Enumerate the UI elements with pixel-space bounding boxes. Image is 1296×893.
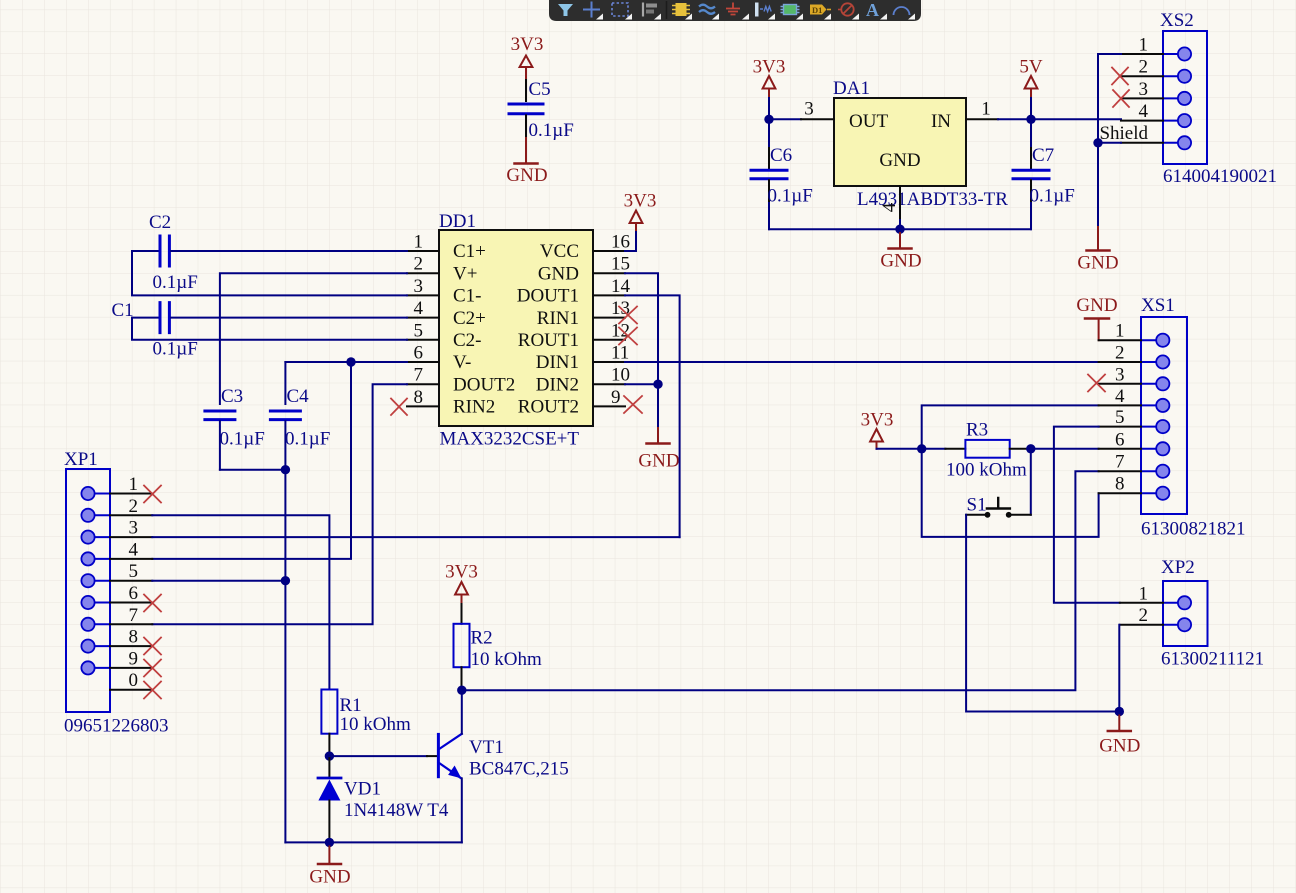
svg-text:XS1: XS1 (1141, 295, 1175, 316)
svg-text:C7: C7 (1032, 145, 1054, 166)
svg-text:1: 1 (1139, 35, 1149, 56)
svg-text:V-: V- (453, 352, 471, 373)
wire R3 node to XS1 pin6 (1031, 448, 1099, 450)
svg-text:S1: S1 (967, 495, 987, 516)
svg-text:3: 3 (1139, 79, 1149, 100)
resistor R2 (454, 604, 542, 690)
probe icon (755, 3, 759, 17)
svg-text:0.1µF: 0.1µF (768, 186, 813, 207)
D1 tag icon (810, 5, 827, 15)
svg-text:3: 3 (804, 99, 814, 120)
pin 4 (DD1) (407, 298, 439, 319)
pin 9 (XP1) (110, 648, 152, 669)
pin 3 (XP1) (110, 518, 152, 539)
resistor R1 (321, 690, 411, 757)
pin 4 (XP1) (110, 539, 152, 560)
svg-text:C3: C3 (221, 386, 243, 407)
wire DD1 pin16 to 3V3 (625, 232, 636, 251)
capacitor C6 (751, 119, 813, 229)
wire 3V3 to C6/DA1 (769, 98, 801, 119)
svg-text:3: 3 (414, 276, 424, 297)
svg-text:1: 1 (1115, 321, 1125, 342)
wire XS1 pin5 to XP2 pin1 (1054, 427, 1120, 603)
connector XS1 (1141, 295, 1246, 540)
connector XS2 (1160, 10, 1277, 187)
svg-text:4: 4 (879, 202, 900, 212)
svg-text:100 kOhm: 100 kOhm (946, 460, 1027, 481)
transistor VT1 (438, 734, 568, 780)
pin 6 (XP1) (110, 583, 152, 604)
svg-text:3: 3 (129, 518, 139, 539)
junction R2/collector (457, 686, 466, 695)
capacitor C7 (1013, 119, 1075, 229)
wire 5V rail (998, 98, 1121, 119)
svg-text:RIN2: RIN2 (453, 397, 495, 418)
dropdown marks (596, 14, 915, 20)
svg-text:4: 4 (129, 539, 139, 560)
svg-text:XP2: XP2 (1161, 557, 1195, 578)
no-ERC marker XP1 pin 10 (144, 682, 161, 699)
ground GND (XP2) (1099, 716, 1140, 757)
junction R3 left node (917, 444, 926, 453)
pin 10 (DD1) (593, 365, 630, 386)
TOOLBAR (549, 0, 921, 21)
junction DIN2/GND (653, 380, 662, 389)
svg-text:6: 6 (129, 583, 139, 604)
voltage regulator DA1 (833, 78, 1008, 210)
pin 3 (DA1 OUT) (801, 99, 834, 120)
pin 7 (XP1) (110, 605, 152, 626)
power port 3V3 (DD1 VCC) (624, 191, 657, 233)
wire DD1 pin14 DOUT1 down (625, 295, 680, 537)
pin 5 (XS1) (1099, 407, 1141, 428)
ground GND (XS2) (1077, 227, 1118, 274)
svg-text:Shield: Shield (1099, 123, 1148, 144)
junction C3/C4 (281, 465, 290, 474)
wire XS2 pin1 to shield (1098, 54, 1121, 227)
svg-text:0.1µF: 0.1µF (153, 272, 198, 293)
pin 8 (DD1) (407, 387, 439, 408)
junction XP1 pin5 (281, 576, 290, 585)
pin 2 (XS1) (1099, 343, 1141, 364)
svg-text:GND: GND (1076, 295, 1117, 316)
svg-text:DD1: DD1 (439, 211, 476, 232)
svg-text:C4: C4 (287, 386, 310, 407)
svg-text:1N4148W T4: 1N4148W T4 (344, 800, 449, 821)
svg-text:3V3: 3V3 (511, 34, 544, 55)
svg-text:2: 2 (129, 496, 139, 517)
svg-text:61300211121: 61300211121 (1161, 649, 1264, 670)
svg-text:3: 3 (1115, 364, 1125, 385)
svg-text:GND: GND (309, 867, 350, 888)
svg-text:2: 2 (414, 254, 424, 275)
pin 12 (DD1) (593, 320, 630, 341)
wire S1 left down to XP2 pin2 net (966, 515, 1119, 712)
switch S1 (966, 495, 1031, 518)
capacitor C5 (509, 79, 574, 141)
svg-text:9: 9 (611, 387, 621, 408)
pin 13 (DD1) (593, 298, 630, 319)
pin 2 (XP2) (1120, 605, 1163, 626)
wire R3 node down to XS1 pin8 (922, 449, 1099, 537)
ground GND (XS1 pin1) (1076, 295, 1117, 340)
junction XP2 gnd node (1115, 707, 1124, 716)
svg-text:R1: R1 (340, 695, 362, 716)
svg-text:4: 4 (1139, 101, 1149, 122)
svg-text:VD1: VD1 (344, 779, 381, 800)
junction V- node (346, 357, 355, 366)
svg-text:D1: D1 (812, 5, 822, 15)
svg-text:OUT: OUT (849, 111, 888, 132)
wire XP1 pin3 to DOUT1 (152, 536, 679, 538)
no-ERC marker XP1 pin 1 (144, 486, 161, 503)
svg-text:1: 1 (981, 99, 991, 120)
wire VT1 collector up (461, 690, 463, 734)
pin 3 (XS2) (1121, 79, 1163, 100)
svg-text:5: 5 (129, 561, 139, 582)
pin 4 (XS1) (1099, 386, 1141, 407)
no-ERC marker DD1 pin 12 (619, 328, 637, 345)
wire VT1 emitter down (461, 778, 463, 842)
wire collector node to XS1 pin7 (462, 471, 1099, 690)
pin 14 (DD1) (593, 276, 631, 297)
svg-text:R2: R2 (471, 628, 493, 649)
svg-text:DIN1: DIN1 (536, 352, 579, 373)
wire bottom gnd rail (285, 841, 461, 843)
svg-text:C6: C6 (770, 145, 792, 166)
svg-text:12: 12 (611, 320, 630, 341)
svg-text:C2-: C2- (453, 330, 482, 351)
pin 6 (XS1) (1099, 429, 1141, 450)
svg-text:GND: GND (506, 165, 547, 186)
pin 11 (DD1) (593, 343, 629, 364)
pin 10 (XP1) (110, 670, 152, 691)
svg-text:DA1: DA1 (833, 78, 870, 99)
svg-text:C1-: C1- (453, 286, 482, 307)
svg-text:15: 15 (611, 254, 630, 275)
wire R3 right node down to S1 (1030, 449, 1032, 515)
svg-text:VT1: VT1 (469, 737, 504, 758)
svg-text:5: 5 (414, 320, 424, 341)
svg-text:DIN2: DIN2 (536, 374, 579, 395)
wire 3V3 to R3 node (877, 448, 922, 450)
power port 3V3 (DA1/C6) (753, 57, 786, 99)
ground GND (C5) (506, 138, 547, 186)
pin 9 (DD1) (593, 387, 625, 408)
svg-text:MAX3232CSE+T: MAX3232CSE+T (440, 429, 580, 450)
wire DD1 pin2 to C3 (220, 273, 407, 404)
pin 2 (XS2) (1121, 57, 1163, 78)
connector XP2 (1161, 557, 1264, 670)
pin 5 (DD1) (407, 320, 439, 341)
svg-text:R3: R3 (966, 420, 988, 441)
wire R3 node up to XS1 pin4 (922, 405, 1099, 448)
ground GND (DD1) (638, 428, 679, 472)
wire DD1 pin7 down to XP1 pin7 (152, 384, 407, 624)
svg-text:5: 5 (1115, 407, 1125, 428)
wires icon (699, 5, 715, 14)
arc icon (894, 7, 910, 15)
ground GND (DA1) (880, 233, 921, 272)
wire XP1 pin2 to R1 (152, 515, 329, 689)
pin 7 (DD1) (407, 365, 439, 386)
svg-text:1: 1 (129, 474, 139, 495)
wire C2 loop to pin3 (132, 251, 407, 295)
wire base R1 to VT1 (329, 755, 437, 757)
wire DA1 pin4 to gnd rail (899, 220, 901, 229)
svg-text:GND: GND (879, 150, 920, 171)
svg-text:09651226803: 09651226803 (64, 716, 169, 737)
pin 1 (DA1 IN) (966, 99, 998, 120)
no-ERC marker XP1 pin 9 (144, 660, 161, 677)
junction C6/3V3 (764, 115, 773, 124)
svg-text:A: A (866, 0, 879, 20)
svg-text:RIN1: RIN1 (537, 308, 579, 329)
wire C3 bottom to C4 bottom (220, 469, 286, 471)
wire node to R3 (922, 448, 946, 450)
wire DD1 pin15 GND net (625, 273, 658, 428)
pin 1 (XS2) (1121, 35, 1163, 56)
svg-text:C2+: C2+ (453, 308, 486, 329)
svg-text:0.1µF: 0.1µF (153, 339, 198, 360)
pin 8 (XP1) (110, 627, 152, 648)
pin 1 (XP1) (110, 474, 152, 495)
capacitor C1 (112, 300, 408, 360)
pin 4 (XS2) (1121, 101, 1163, 122)
svg-text:3V3: 3V3 (624, 191, 657, 212)
pin 3 (DD1) (407, 276, 439, 297)
svg-text:2: 2 (1139, 57, 1149, 78)
svg-text:GND: GND (638, 451, 679, 472)
svg-text:8: 8 (1115, 474, 1125, 495)
svg-text:614004190021: 614004190021 (1163, 166, 1277, 187)
IC DD1 MAX3232CSE+T (439, 211, 593, 450)
pin Shield (XS2) (1099, 123, 1163, 144)
svg-text:BC847C,215: BC847C,215 (469, 759, 569, 780)
IC icon yellow (676, 3, 687, 16)
wire XP2 pin2 down (1118, 625, 1120, 712)
svg-text:7: 7 (1115, 452, 1125, 473)
svg-text:C2: C2 (149, 212, 171, 233)
svg-text:10: 10 (611, 365, 630, 386)
pin 4 (DA1 GND) (879, 186, 900, 220)
no-ERC marker XP1 pin 8 (144, 638, 161, 655)
svg-text:6: 6 (1115, 429, 1125, 450)
no-ERC marker XP1 pin 6 (144, 595, 161, 612)
no-ERC marker DD1 pin 9 (624, 396, 642, 413)
svg-text:0.1µF: 0.1µF (285, 429, 330, 450)
svg-text:C5: C5 (529, 79, 551, 100)
pin 5 (XP1) (110, 561, 152, 582)
svg-text:0: 0 (129, 670, 139, 691)
svg-text:VCC: VCC (540, 241, 579, 262)
pin 6 (DD1) (407, 343, 439, 364)
svg-text:1: 1 (1139, 583, 1149, 604)
diode VD1 (318, 756, 449, 842)
svg-text:3V3: 3V3 (861, 410, 894, 431)
pin 8 (XS1) (1099, 474, 1141, 495)
no-erc icon (838, 9, 841, 11)
pin 2 (XP1) (110, 496, 152, 517)
svg-text:9: 9 (129, 648, 139, 669)
selection rect icon (612, 3, 628, 16)
capacitor C4 (270, 362, 330, 470)
svg-text:GND: GND (1099, 736, 1140, 757)
no-ERC marker XS1 pin 3 (1088, 375, 1105, 392)
no-ERC marker XS2 pin 3 (1113, 90, 1129, 107)
pin 1 (XS1) (1099, 321, 1141, 342)
wire C1 loop to pin5 (132, 318, 407, 340)
wire C4 top to DD1 pin6 (285, 361, 407, 363)
align icon (642, 3, 644, 17)
power port 3V3 (R2) (445, 562, 478, 605)
resistor R3 (945, 420, 1030, 481)
wire DD1 pin10 stub (625, 383, 658, 385)
filter icon (558, 4, 573, 16)
wire gnd rail C6-C7 (769, 228, 1031, 230)
svg-text:IN: IN (931, 111, 951, 132)
svg-text:14: 14 (611, 276, 631, 297)
pin 15 (DD1) (593, 254, 630, 275)
pin 2 (DD1) (407, 254, 439, 275)
junction R1/VD1/base (325, 751, 334, 760)
svg-text:8: 8 (129, 627, 139, 648)
svg-text:V+: V+ (453, 263, 477, 284)
svg-text:7: 7 (129, 605, 139, 626)
capacitor C3 (205, 386, 265, 470)
pin 3 (XS1) (1099, 364, 1141, 385)
power port 3V3 (R3) (861, 410, 894, 449)
wire V- down to XP1 pin4 (152, 362, 351, 559)
no-ERC marker DD1 pin 8 (391, 399, 407, 416)
svg-text:C1+: C1+ (453, 241, 486, 262)
svg-text:0.1µF: 0.1µF (220, 429, 265, 450)
no-ERC marker XS2 pin 2 (1112, 68, 1128, 85)
svg-text:ROUT1: ROUT1 (518, 330, 579, 351)
svg-text:0.1µF: 0.1µF (1030, 186, 1075, 207)
svg-text:3V3: 3V3 (445, 562, 478, 583)
svg-text:GND: GND (880, 251, 921, 272)
wire XP1 pin5 stub (152, 580, 285, 582)
pin 1 (DD1) (407, 232, 439, 253)
junction gnd rail (895, 225, 904, 234)
junction shield (1093, 138, 1102, 147)
junction VD1/gnd rail (325, 838, 334, 847)
svg-text:XS2: XS2 (1160, 10, 1194, 31)
separator (666, 1, 668, 19)
pin 1 (XP2) (1120, 583, 1163, 604)
power port 3V3 (C5) (511, 34, 544, 80)
ground GND (VD1) (309, 847, 350, 888)
svg-text:2: 2 (1139, 605, 1149, 626)
svg-text:C1: C1 (112, 300, 134, 321)
svg-text:10 kOhm: 10 kOhm (471, 649, 542, 670)
svg-text:4: 4 (1115, 386, 1125, 407)
power port 5V (1019, 57, 1043, 99)
svg-text:DOUT1: DOUT1 (517, 286, 579, 307)
svg-text:2: 2 (1115, 343, 1125, 364)
svg-text:DOUT2: DOUT2 (453, 374, 515, 395)
wire C3/C4 net down (284, 470, 286, 843)
IC icon green (784, 5, 797, 15)
pin 7 (XS1) (1099, 452, 1141, 473)
wire DIN1 DD1 pin11 to XS1 pin2 (625, 361, 1099, 363)
svg-text:11: 11 (611, 343, 629, 364)
junction C7/5V (1026, 115, 1035, 124)
svg-text:8: 8 (414, 387, 424, 408)
svg-text:6: 6 (414, 343, 424, 364)
svg-text:16: 16 (611, 232, 630, 253)
gnd icon (726, 3, 740, 15)
svg-text:1: 1 (414, 232, 424, 253)
svg-text:ROUT2: ROUT2 (518, 397, 579, 418)
svg-text:10 kOhm: 10 kOhm (340, 714, 411, 735)
no-ERC marker DD1 pin 13 (619, 307, 637, 324)
junction R3 right node (1026, 444, 1035, 453)
svg-text:0.1µF: 0.1µF (529, 120, 574, 141)
pin 16 (DD1) (593, 232, 630, 253)
svg-text:7: 7 (414, 365, 424, 386)
connector XP1 (64, 449, 169, 737)
svg-text:GND: GND (538, 263, 579, 284)
svg-text:GND: GND (1077, 253, 1118, 274)
svg-text:4: 4 (414, 298, 424, 319)
svg-text:XP1: XP1 (64, 449, 98, 470)
capacitor C2 (132, 212, 407, 293)
wire shield stub (1098, 142, 1121, 144)
crosshair icon (583, 2, 600, 18)
svg-text:61300821821: 61300821821 (1141, 519, 1246, 540)
